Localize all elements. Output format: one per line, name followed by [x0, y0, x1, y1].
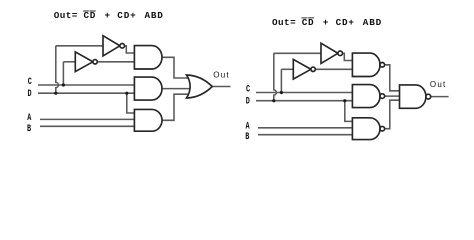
svg-text:D: D — [28, 88, 32, 100]
svg-text:B: B — [27, 123, 31, 135]
svg-text:Out: Out — [213, 70, 230, 79]
svg-text:C: C — [246, 83, 250, 95]
svg-text:Out: Out — [430, 80, 447, 89]
svg-text:Out=CD+CD+ABD: Out=CD+CD+ABD — [54, 10, 164, 21]
svg-text:D: D — [246, 95, 250, 107]
svg-text:B: B — [245, 131, 249, 143]
svg-text:Out=CD+CD+ABD: Out=CD+CD+ABD — [272, 17, 382, 28]
svg-text:C: C — [28, 76, 32, 88]
